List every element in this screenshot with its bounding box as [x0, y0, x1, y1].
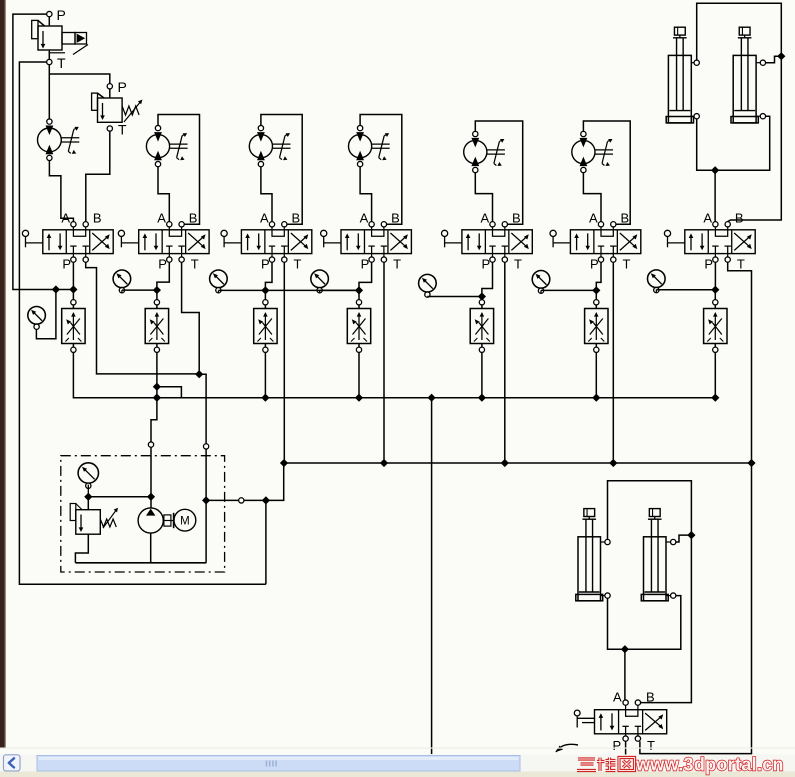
tank line	[75, 562, 206, 564]
junction	[712, 167, 719, 174]
svg-text:T: T	[191, 257, 199, 272]
junction	[262, 394, 269, 401]
wire valve V7 P jog down	[714, 262, 716, 286]
electric motor M	[174, 509, 196, 531]
svg-text:A: A	[260, 211, 269, 226]
wire gauge G6 to junction	[540, 290, 542, 293]
pressure gauge G0 power unit	[78, 463, 98, 483]
coupling	[163, 520, 174, 522]
flow control valve F3	[254, 309, 277, 344]
wire valve V5 T down to return bus	[504, 262, 506, 463]
port circles CYL3	[605, 539, 610, 544]
junction	[622, 646, 629, 653]
junction	[148, 493, 155, 500]
svg-text:P: P	[62, 257, 71, 272]
wire return to drain header	[265, 500, 267, 584]
wire motor M3 bottom to valve port A	[261, 167, 272, 222]
wire valve V1 T to tank drop	[86, 262, 197, 374]
svg-text:B: B	[292, 211, 301, 226]
svg-text:P: P	[57, 7, 66, 23]
svg-text:P: P	[482, 257, 491, 272]
junction	[479, 293, 486, 300]
svg-text:T: T	[514, 257, 522, 272]
wire gauge G4 to junction	[319, 290, 321, 292]
port P of RV2	[107, 84, 112, 89]
wire valve V3 P jog down	[265, 262, 272, 287]
wire gauge G7 to junction	[655, 290, 657, 293]
wire branch to CYL4 top	[676, 535, 691, 542]
wire gauge G0 down	[87, 485, 89, 494]
wire header down to valve V7 port A	[714, 170, 716, 221]
wire valve V4 T down to return bus	[383, 262, 385, 463]
wire valve V5 P jog down	[482, 262, 493, 293]
wire motor M2 top wrap to valve port B	[158, 115, 200, 225]
pressure gauge G6	[532, 271, 550, 289]
svg-text:www.3dportal.cn: www.3dportal.cn	[635, 755, 784, 775]
cylinder CYL4	[644, 537, 667, 601]
junction	[712, 394, 719, 401]
window left border strip	[0, 0, 5, 749]
pressure gauge G3	[210, 270, 228, 288]
cylinder CYL2	[733, 55, 756, 123]
pressure gauge G2	[113, 270, 131, 288]
flow control valve F1	[62, 309, 85, 344]
svg-text:T: T	[737, 257, 745, 272]
svg-text:P: P	[261, 257, 270, 272]
wire gauge junction to pump riser	[88, 496, 151, 498]
wire motor M4 bottom to valve port A	[360, 167, 372, 222]
junction	[154, 383, 161, 390]
wire RV1 P stub	[48, 17, 50, 26]
pressure gauge G4	[311, 270, 329, 288]
port circle pump outlet	[148, 442, 153, 447]
junction	[85, 493, 92, 500]
relief valve RV1 solenoid stage	[62, 33, 75, 45]
wire P line from RV1 down left side	[13, 14, 71, 289]
wire RV1 T to motor M1 top	[48, 65, 50, 119]
junction	[501, 460, 508, 467]
svg-text:B: B	[621, 211, 630, 226]
port circles CYL4	[671, 539, 676, 544]
power unit enclosure	[61, 456, 225, 572]
wire F3 to pressure bus	[264, 353, 266, 398]
wire F1 connections	[72, 293, 74, 300]
wire gauge manifold V3-V4	[265, 289, 359, 291]
directional valve V8	[595, 710, 667, 734]
hydraulic motor M4	[349, 135, 372, 158]
flow control valve F4	[347, 309, 370, 344]
svg-text:B: B	[646, 690, 655, 705]
wire motor M5 top wrap to valve port B	[475, 121, 522, 224]
svg-text:P: P	[158, 257, 167, 272]
port circles CYL2	[760, 60, 765, 65]
wire motor M6 top wrap to valve port B	[583, 121, 630, 224]
hydraulic motor M5	[464, 140, 487, 163]
svg-text:A: A	[589, 211, 598, 226]
relief valve RV0 body	[76, 510, 101, 535]
scrollbar left arrow button	[4, 755, 21, 771]
directional valve V2	[139, 230, 209, 254]
wire RV2 T to valve V1 port B	[86, 131, 110, 221]
wire valve V2 P jog down	[157, 262, 169, 287]
wire valve V8 T drain up right side	[640, 463, 752, 754]
wire valve V4 P jog down	[359, 262, 372, 287]
wire F5 to pressure bus	[481, 353, 483, 398]
svg-text:B: B	[93, 211, 102, 226]
flow control valve F6	[585, 309, 608, 344]
wire gauge G5 to junction	[426, 296, 428, 299]
directional valve V7	[685, 230, 755, 254]
junction	[688, 532, 695, 539]
svg-text:B: B	[189, 211, 198, 226]
svg-text:B: B	[391, 211, 400, 226]
port circle on return line	[239, 498, 244, 503]
wire motor M3 top wrap to valve port B	[261, 115, 302, 225]
wire gauge G1 to P junction	[36, 293, 56, 339]
junction	[196, 371, 203, 378]
junction	[356, 287, 363, 294]
pressure gauge G7	[648, 270, 666, 288]
hydraulic motor M2	[146, 135, 169, 158]
directional valve V6	[570, 230, 640, 254]
wire F2 to pressure bus	[156, 353, 158, 398]
svg-text:T: T	[294, 257, 302, 272]
junction	[154, 287, 161, 294]
wire F4 to pressure bus	[358, 353, 360, 398]
wire valve V3 T down to return bus	[283, 262, 285, 463]
flow control valve F7	[704, 309, 727, 344]
junction	[593, 394, 600, 401]
flow control valve F5	[470, 309, 493, 344]
wire RV0 drain to tank	[75, 534, 88, 563]
wire F7 to pressure bus	[714, 353, 716, 398]
port P of RV1	[47, 11, 52, 16]
wire valve V1 P down	[72, 262, 74, 286]
junction	[356, 394, 363, 401]
svg-text:A: A	[157, 211, 166, 226]
wire motor M6 bottom to valve port A	[583, 173, 601, 222]
svg-text:M: M	[180, 516, 190, 528]
port T of RV2	[107, 126, 112, 131]
rotation arrow symbol	[556, 744, 578, 752]
svg-text:A: A	[613, 690, 622, 705]
wire bus jog	[157, 387, 182, 398]
junction	[778, 53, 785, 60]
wire valve V8 P down	[625, 741, 627, 754]
wire T drain from RV1 down to tank line	[19, 62, 266, 584]
svg-text:B: B	[735, 211, 744, 226]
directional valve V4	[341, 230, 411, 254]
junction	[70, 286, 77, 293]
wire header down to valve V8 port A	[624, 649, 626, 700]
return bus	[284, 462, 752, 464]
wire RV2 P to node	[49, 74, 109, 84]
wire valve V6 T down to return bus	[612, 262, 614, 463]
junction	[154, 394, 161, 401]
svg-text:T: T	[623, 257, 631, 272]
wire CYL2 top port to riser	[766, 56, 778, 63]
hydraulic motor M6	[572, 140, 595, 163]
junction	[428, 394, 435, 401]
cylinder CYL1	[668, 55, 691, 123]
relief valve RV1 body	[38, 26, 62, 50]
svg-text:A: A	[360, 211, 369, 226]
svg-text:T: T	[57, 55, 66, 71]
svg-text:P: P	[118, 79, 127, 95]
junction	[593, 287, 600, 294]
svg-text:T: T	[393, 257, 401, 272]
junction	[479, 394, 486, 401]
junction	[381, 460, 388, 467]
wire motor M5 bottom to valve port A	[475, 173, 492, 222]
pressure gauge G5	[419, 274, 437, 292]
wire gauge G3 to junction	[217, 290, 219, 292]
junction	[748, 460, 755, 467]
valve V8 operator	[574, 710, 580, 716]
svg-text:P: P	[704, 257, 713, 272]
cylinder CYL3	[578, 537, 601, 601]
junction	[203, 497, 210, 504]
wire valve V7 T jog to return bus	[728, 262, 752, 463]
junction	[53, 286, 60, 293]
flow control valve F2	[145, 309, 168, 344]
port circles CYL1	[694, 60, 699, 65]
relief valve RV0 spring	[100, 519, 116, 527]
svg-text:A: A	[703, 211, 712, 226]
svg-text:A: A	[61, 211, 70, 226]
wire motor M4 top wrap to valve port B	[360, 115, 402, 225]
wire relief RV0 P	[87, 497, 89, 510]
wire pump riser	[151, 398, 157, 442]
wire motor M2 bottom to valve port A	[158, 167, 169, 222]
ports of valve V8	[623, 700, 628, 705]
svg-text:P: P	[361, 257, 370, 272]
junction	[610, 460, 617, 467]
wire F1 to pressure bus	[73, 353, 714, 398]
junction	[281, 460, 288, 467]
junction	[263, 497, 270, 504]
wire feeder down to bottom edge	[431, 398, 433, 754]
pump P1	[138, 508, 163, 533]
svg-text:P: P	[590, 257, 599, 272]
wire valve V2 T to tank	[182, 262, 200, 371]
svg-text:A: A	[481, 211, 490, 226]
wire top feed bus to cylinders	[697, 3, 782, 221]
port circle tank entry	[203, 444, 208, 449]
wire tank entry line	[199, 374, 206, 443]
hydraulic motor M1	[38, 128, 62, 152]
pressure gauge G1	[28, 307, 46, 325]
wire cylinder bottoms header	[697, 116, 770, 170]
junction	[262, 287, 269, 294]
wire RV1 T stub	[48, 50, 50, 59]
hydraulic motor M3	[249, 135, 272, 158]
wire valve V6 P jog down	[596, 262, 601, 287]
relief valve RV2 spring	[122, 106, 139, 115]
wire gauge G2 to junction	[121, 290, 123, 293]
junction	[154, 394, 161, 401]
wire F6 to pressure bus	[595, 353, 597, 398]
svg-text:T: T	[118, 122, 127, 138]
directional valve V3	[241, 230, 311, 254]
wire bottom cylinder bottoms header	[608, 596, 681, 650]
status strip	[0, 772, 795, 777]
relief valve RV2 body	[98, 98, 123, 122]
wire bottom cylinder circuit top box	[608, 481, 692, 703]
wire motor M1 bottom to valve V1 port A	[49, 161, 73, 222]
directional valve V1	[43, 230, 113, 254]
svg-text:P: P	[613, 738, 622, 753]
port T of RV1	[47, 59, 52, 64]
junction	[712, 286, 719, 293]
horizontal scrollbar	[0, 755, 795, 772]
svg-text:B: B	[512, 211, 521, 226]
svg-text:T: T	[647, 738, 655, 753]
watermark text	[577, 755, 784, 775]
wire pump suction	[150, 533, 152, 563]
directional valve V5	[462, 230, 532, 254]
